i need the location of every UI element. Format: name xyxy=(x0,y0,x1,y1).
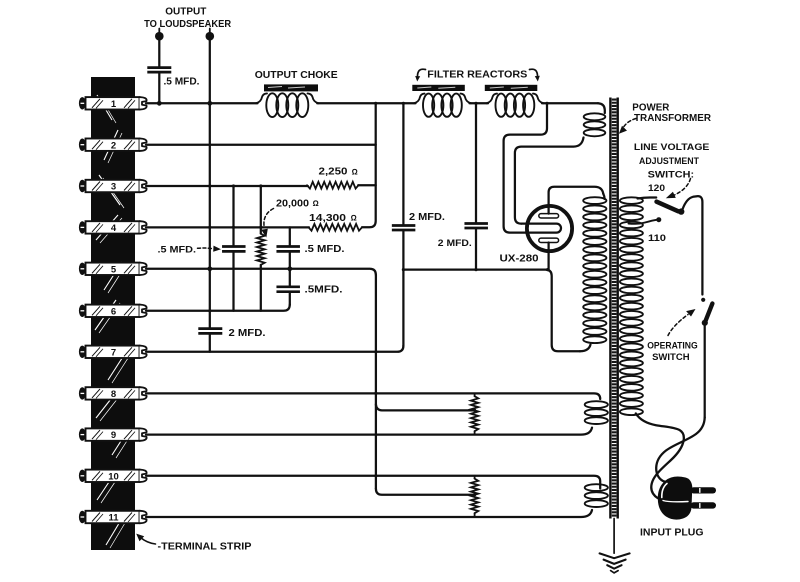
svg-text:5: 5 xyxy=(111,264,117,275)
svg-text:TO LOUDSPEAKER: TO LOUDSPEAKER xyxy=(144,18,231,30)
svg-text:110: 110 xyxy=(648,233,666,243)
svg-text:4: 4 xyxy=(111,223,117,234)
svg-text:.5MFD.: .5MFD. xyxy=(305,285,343,296)
svg-text:POWER: POWER xyxy=(632,103,670,114)
svg-text:Ω: Ω xyxy=(352,167,358,176)
svg-text:8: 8 xyxy=(111,389,116,400)
svg-text:OUTPUT: OUTPUT xyxy=(165,6,207,18)
svg-text:SWITCH: SWITCH xyxy=(652,352,690,363)
svg-text:9: 9 xyxy=(111,430,116,441)
svg-text:2,250: 2,250 xyxy=(319,167,349,178)
svg-text:2 MFD.: 2 MFD. xyxy=(229,328,266,339)
svg-text:7: 7 xyxy=(111,347,116,358)
svg-text:OUTPUT CHOKE: OUTPUT CHOKE xyxy=(255,69,338,81)
svg-text:2: 2 xyxy=(111,140,116,151)
svg-text:20,000: 20,000 xyxy=(276,198,310,209)
svg-text:Ω: Ω xyxy=(351,214,357,223)
svg-text:3: 3 xyxy=(111,182,116,193)
svg-text:2 MFD.: 2 MFD. xyxy=(409,212,445,223)
svg-text:UX-280: UX-280 xyxy=(500,253,539,264)
svg-text:11: 11 xyxy=(108,513,119,524)
svg-text:14,300: 14,300 xyxy=(309,213,347,224)
svg-text:ADJUSTMENT: ADJUSTMENT xyxy=(639,156,699,167)
svg-text:1: 1 xyxy=(111,99,117,110)
svg-text:FILTER REACTORS: FILTER REACTORS xyxy=(427,68,527,80)
svg-text:SWITCH:: SWITCH: xyxy=(648,169,695,180)
svg-text:Ω: Ω xyxy=(313,199,319,208)
svg-text:INPUT PLUG: INPUT PLUG xyxy=(640,528,704,539)
svg-text:.5 MFD.: .5 MFD. xyxy=(305,244,345,255)
svg-text:6: 6 xyxy=(111,306,116,317)
svg-text:TRANSFORMER: TRANSFORMER xyxy=(634,113,712,124)
svg-text:.5 MFD.: .5 MFD. xyxy=(158,244,197,255)
svg-text:OPERATING: OPERATING xyxy=(647,340,698,351)
svg-text:10: 10 xyxy=(108,471,119,482)
svg-text:-TERMINAL STRIP: -TERMINAL STRIP xyxy=(158,541,252,552)
svg-text:120: 120 xyxy=(648,183,665,193)
svg-text:2 MFD.: 2 MFD. xyxy=(438,238,472,248)
svg-text:LINE VOLTAGE: LINE VOLTAGE xyxy=(634,142,710,153)
svg-text:.5 MFD.: .5 MFD. xyxy=(164,77,200,88)
